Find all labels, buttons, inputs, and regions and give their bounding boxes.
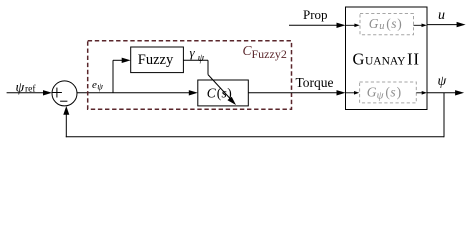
block G_psi(s) dashed xyxy=(360,82,417,103)
wire e_psi summer to C(s) xyxy=(77,90,198,95)
block G_u(s) dashed xyxy=(360,14,414,35)
svg-text:G: G xyxy=(367,84,377,99)
wire G_u to box edge xyxy=(414,24,427,28)
dashed box C_Fuzzy2 xyxy=(88,41,292,110)
svg-text:Fuzzy2: Fuzzy2 xyxy=(252,47,287,61)
label C_Fuzzy2 xyxy=(243,43,287,61)
node e_psi label xyxy=(92,79,103,92)
summing junction xyxy=(52,81,77,106)
wire Prop input xyxy=(289,23,346,28)
svg-text:): ) xyxy=(397,84,402,99)
svg-text:ψ: ψ xyxy=(198,53,205,64)
wire psi_ref to summer xyxy=(7,90,52,95)
plus sign xyxy=(52,88,62,98)
svg-text:G: G xyxy=(369,16,379,31)
svg-text:UANAY: UANAY xyxy=(365,55,406,67)
block Fuzzy xyxy=(131,47,184,73)
svg-text:s: s xyxy=(391,16,396,31)
block Guanay II xyxy=(346,7,428,110)
wire branch to Fuzzy xyxy=(113,58,131,93)
svg-text:u: u xyxy=(438,8,445,23)
svg-text:u: u xyxy=(379,21,384,32)
block C(s) controller xyxy=(198,80,249,106)
svg-text:s: s xyxy=(222,86,227,101)
wire psi output xyxy=(427,90,464,95)
node gamma_psi label xyxy=(190,45,205,64)
wire into G_psi xyxy=(346,91,360,95)
svg-text:Fuzzy: Fuzzy xyxy=(138,52,174,68)
svg-text:ψ: ψ xyxy=(377,90,384,102)
wire G_psi to box edge xyxy=(416,91,427,95)
wire into G_u xyxy=(346,24,360,28)
svg-text:Torque: Torque xyxy=(296,75,334,90)
wire Torque C(s) to Guanay xyxy=(248,90,345,95)
wire Fuzzy to C(s) tuning arrow xyxy=(183,60,236,105)
svg-text:ψ: ψ xyxy=(438,74,447,89)
svg-text:Prop: Prop xyxy=(303,7,328,22)
svg-text:ψ: ψ xyxy=(97,82,103,92)
svg-text:γ: γ xyxy=(190,45,196,60)
minus sign xyxy=(60,100,67,102)
svg-text:G: G xyxy=(353,49,365,68)
svg-text:s: s xyxy=(390,84,395,99)
wire feedback xyxy=(63,93,444,137)
label Guanay II xyxy=(353,49,420,68)
svg-text:C: C xyxy=(207,86,217,101)
svg-text:II: II xyxy=(407,49,420,68)
node psi_ref label xyxy=(16,80,37,95)
wire u output xyxy=(427,22,466,27)
svg-text:): ) xyxy=(397,16,402,31)
